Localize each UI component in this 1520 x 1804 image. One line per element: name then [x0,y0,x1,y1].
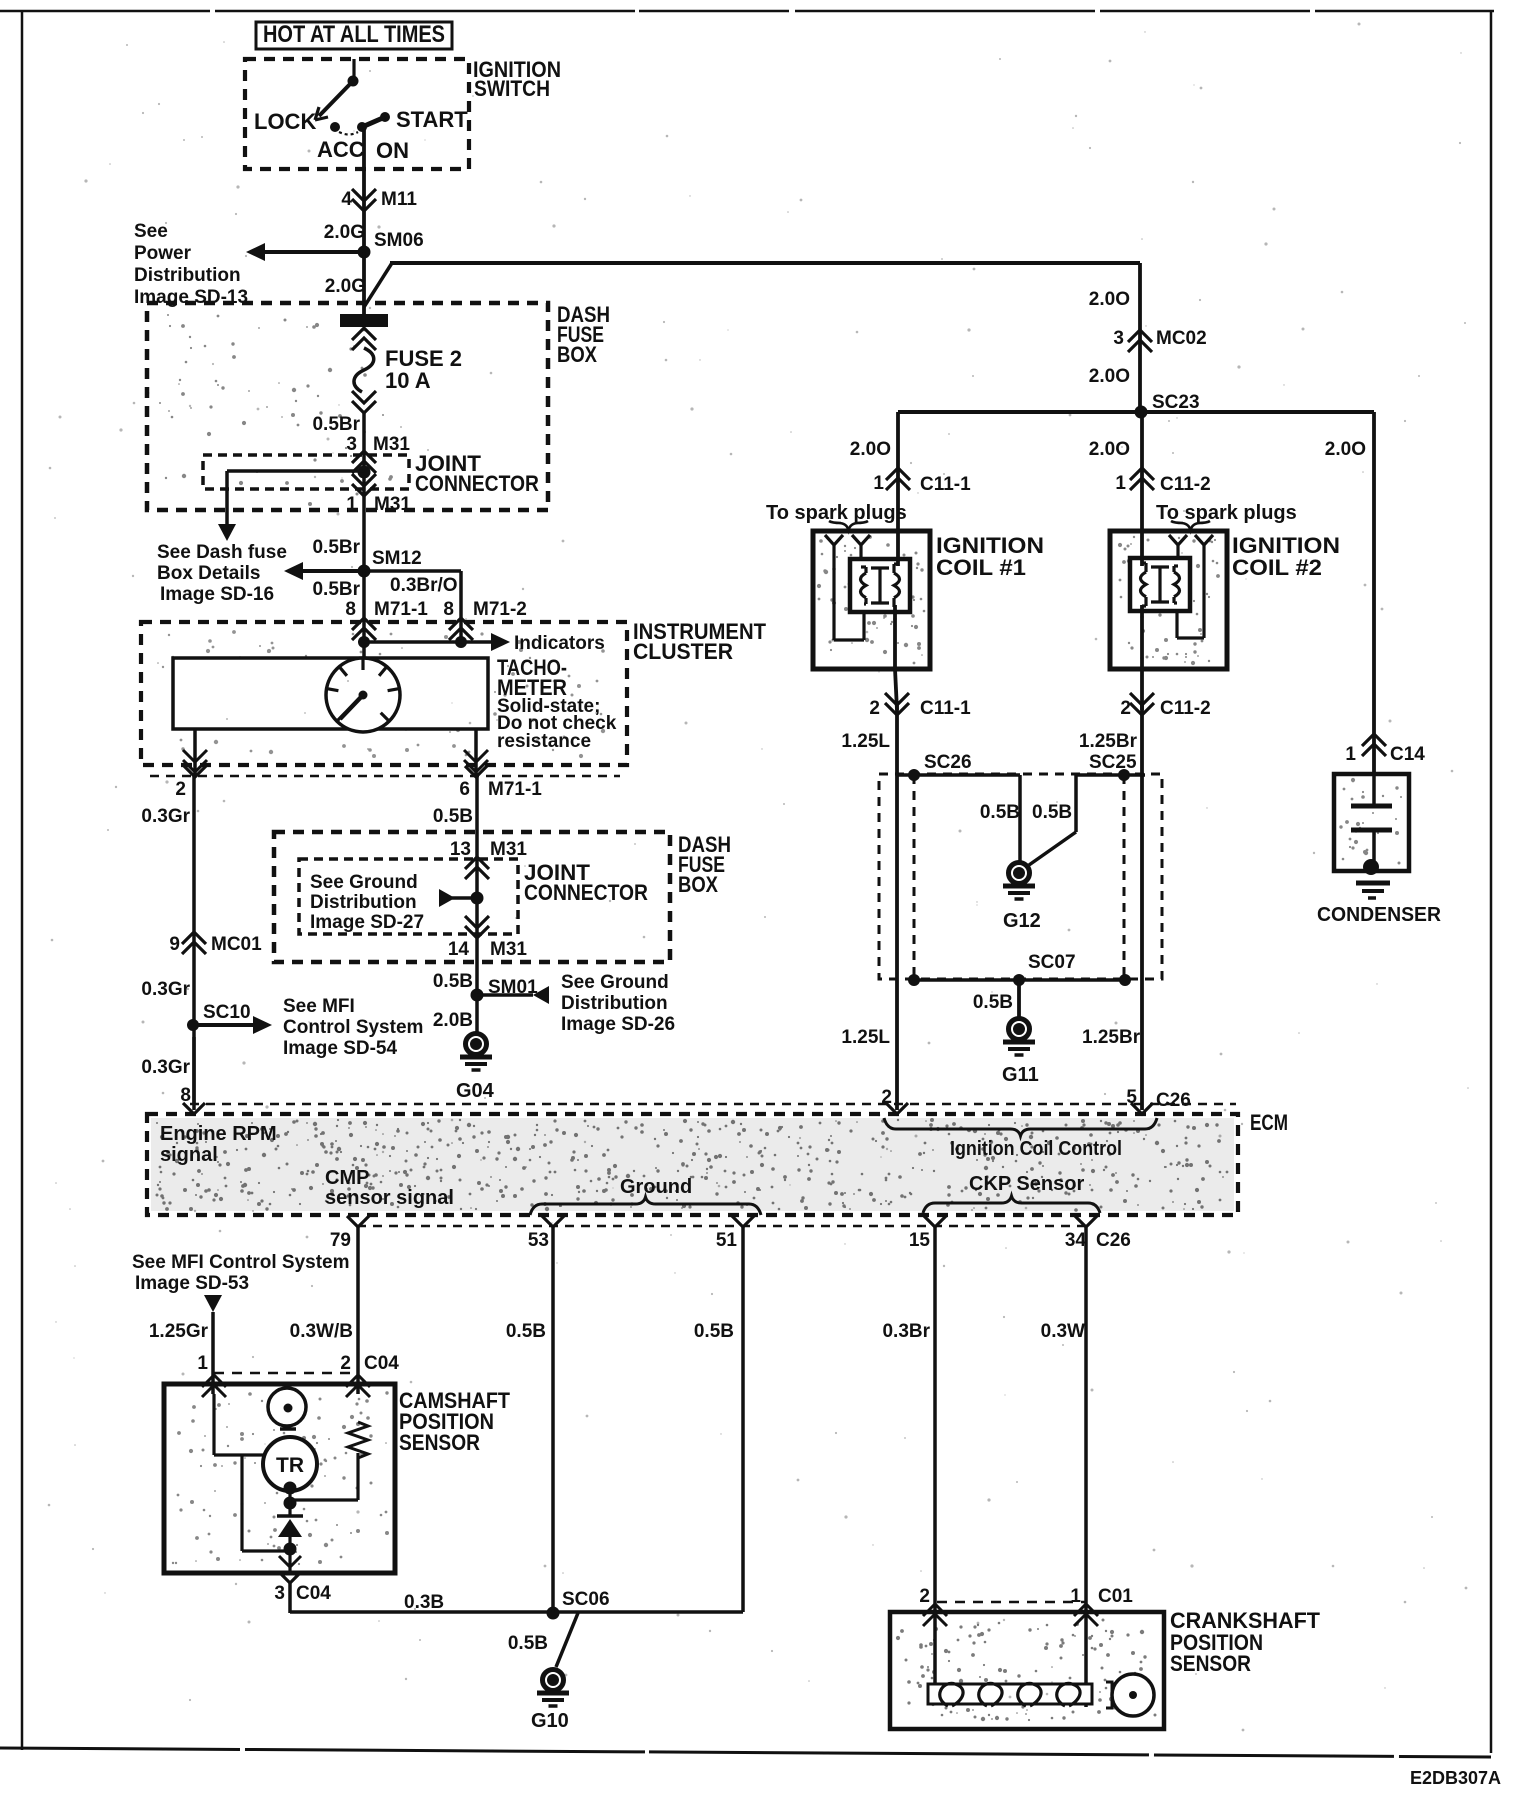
svg-text:SC07: SC07 [1028,952,1076,973]
svg-text:15: 15 [909,1230,931,1251]
svg-text:14: 14 [448,939,470,960]
svg-text:CONNECTOR: CONNECTOR [524,880,648,905]
svg-text:COIL #2: COIL #2 [1232,555,1322,580]
svg-text:G12: G12 [1003,910,1041,932]
svg-text:C11-2: C11-2 [1160,474,1211,495]
svg-text:2.0O: 2.0O [1089,366,1130,387]
svg-text:See: See [134,221,168,242]
svg-text:SWITCH: SWITCH [474,76,550,101]
svg-text:M71-1: M71-1 [488,779,542,800]
svg-text:9: 9 [169,934,180,955]
svg-text:M31: M31 [490,839,527,860]
svg-text:M71-2: M71-2 [473,599,527,620]
svg-text:1: 1 [197,1353,208,1374]
svg-text:ACC: ACC [317,137,365,162]
svg-text:1.25Br: 1.25Br [1082,1027,1141,1048]
svg-text:0.3Gr: 0.3Gr [141,806,190,827]
svg-text:To spark plugs: To spark plugs [1156,502,1297,524]
svg-text:0.5Br: 0.5Br [312,537,360,558]
svg-text:0.3W/B: 0.3W/B [290,1321,353,1342]
svg-text:MC01: MC01 [211,934,262,955]
svg-text:SENSOR: SENSOR [399,1430,480,1455]
svg-text:1: 1 [346,494,357,515]
svg-text:SENSOR: SENSOR [1170,1651,1251,1676]
svg-text:0.3Gr: 0.3Gr [141,979,190,1000]
svg-text:Indicators: Indicators [514,633,605,654]
svg-text:SM06: SM06 [374,230,424,251]
svg-text:0.5Br: 0.5Br [312,579,360,600]
svg-text:79: 79 [330,1230,351,1251]
svg-text:G11: G11 [1002,1064,1039,1086]
svg-text:3: 3 [346,434,357,455]
svg-text:See Ground: See Ground [561,972,669,993]
svg-text:START: START [396,107,468,132]
svg-text:ECM: ECM [1250,1110,1288,1135]
svg-text:E2DB307A: E2DB307A [1410,1768,1501,1788]
svg-text:0.5B: 0.5B [694,1321,734,1342]
svg-text:C01: C01 [1098,1586,1133,1607]
svg-text:Control System: Control System [283,1017,423,1038]
svg-text:1: 1 [1345,744,1356,765]
svg-text:2.0B: 2.0B [433,1010,473,1031]
svg-text:0.5B: 0.5B [506,1321,546,1342]
svg-text:M11: M11 [381,189,417,210]
svg-text:8: 8 [180,1085,191,1106]
svg-text:C14: C14 [1390,744,1425,765]
svg-text:Ground: Ground [620,1176,692,1198]
svg-text:C11-1: C11-1 [920,698,971,719]
svg-text:C11-1: C11-1 [920,474,971,495]
svg-text:1: 1 [873,473,884,494]
svg-text:resistance: resistance [497,731,591,752]
svg-text:8: 8 [345,599,356,620]
svg-text:CLUSTER: CLUSTER [633,639,733,664]
svg-text:SC23: SC23 [1152,392,1200,413]
svg-text:4: 4 [341,189,352,210]
svg-text:2.0O: 2.0O [1089,289,1130,310]
svg-text:M31: M31 [374,494,411,515]
svg-text:6: 6 [459,779,470,800]
svg-text:CONDENSER: CONDENSER [1317,904,1442,926]
svg-text:TR: TR [276,1454,304,1477]
svg-text:2.0G: 2.0G [325,276,366,297]
svg-text:0.3W: 0.3W [1041,1321,1085,1342]
svg-text:10 A: 10 A [385,368,431,393]
svg-text:See MFI: See MFI [283,996,355,1017]
svg-text:See Dash fuse: See Dash fuse [157,542,287,563]
svg-text:See Ground: See Ground [310,872,418,893]
svg-text:sensor signal: sensor signal [325,1187,454,1209]
svg-text:1.25Br: 1.25Br [1079,731,1138,752]
svg-text:HOT AT ALL TIMES: HOT AT ALL TIMES [263,21,445,48]
svg-text:SC10: SC10 [203,1002,251,1023]
svg-text:Image SD-26: Image SD-26 [561,1014,675,1035]
svg-text:Distribution: Distribution [310,892,417,913]
svg-text:34: 34 [1065,1230,1087,1251]
svg-text:Image SD-16: Image SD-16 [160,584,274,605]
svg-text:Box Details: Box Details [157,563,260,584]
svg-text:2: 2 [340,1353,351,1374]
svg-text:Image SD-54: Image SD-54 [283,1038,397,1059]
svg-text:0.5B: 0.5B [1032,802,1072,823]
svg-text:0.5B: 0.5B [433,971,473,992]
svg-text:SC06: SC06 [562,1589,610,1610]
svg-text:1: 1 [1070,1586,1081,1607]
svg-text:2.0G: 2.0G [324,222,365,243]
svg-text:Distribution: Distribution [134,265,241,286]
svg-text:Ignition Coil Control: Ignition Coil Control [950,1138,1122,1160]
svg-text:0.5B: 0.5B [433,806,473,827]
svg-text:C26: C26 [1156,1090,1191,1111]
svg-text:2: 2 [1120,698,1131,719]
svg-text:SM12: SM12 [372,548,422,569]
svg-text:0.5B: 0.5B [980,802,1020,823]
svg-text:BOX: BOX [678,872,718,897]
svg-text:Distribution: Distribution [561,993,668,1014]
svg-text:BOX: BOX [557,342,597,367]
svg-text:Image SD-27: Image SD-27 [310,912,424,933]
svg-text:C04: C04 [296,1583,331,1604]
svg-text:G04: G04 [456,1080,495,1102]
svg-text:51: 51 [716,1230,738,1251]
svg-text:1: 1 [1115,473,1126,494]
svg-text:2.0O: 2.0O [850,439,891,460]
svg-text:1.25Gr: 1.25Gr [149,1321,209,1342]
svg-text:3: 3 [1113,328,1124,349]
svg-text:Power: Power [134,243,192,264]
svg-text:G10: G10 [531,1710,569,1732]
svg-text:MC02: MC02 [1156,328,1207,349]
svg-text:M71-1: M71-1 [374,599,428,620]
svg-text:2.0O: 2.0O [1089,439,1130,460]
svg-text:2.0O: 2.0O [1325,439,1366,460]
svg-text:CONNECTOR: CONNECTOR [415,471,539,496]
svg-text:3: 3 [274,1583,285,1604]
svg-text:53: 53 [528,1230,549,1251]
svg-text:LOCK: LOCK [254,109,316,134]
svg-text:C04: C04 [364,1353,399,1374]
svg-text:See MFI Control System: See MFI Control System [132,1252,350,1273]
svg-text:2: 2 [869,698,880,719]
svg-text:0.5B: 0.5B [508,1633,548,1654]
svg-text:ON: ON [376,138,409,163]
svg-text:Image SD-53: Image SD-53 [135,1273,249,1294]
svg-text:1.25L: 1.25L [841,731,890,752]
svg-text:0.3Br/O: 0.3Br/O [390,575,458,596]
svg-text:0.5Br: 0.5Br [312,414,360,435]
svg-text:M31: M31 [490,939,527,960]
svg-text:signal: signal [160,1144,218,1166]
svg-text:Engine RPM: Engine RPM [160,1123,277,1145]
svg-text:2: 2 [919,1586,930,1607]
svg-text:SC26: SC26 [924,752,972,773]
svg-text:8: 8 [443,599,454,620]
svg-text:0.3B: 0.3B [404,1592,444,1613]
svg-text:C11-2: C11-2 [1160,698,1211,719]
svg-text:To spark plugs: To spark plugs [766,502,907,524]
svg-text:M31: M31 [373,434,410,455]
svg-text:1.25L: 1.25L [841,1027,890,1048]
svg-text:0.5B: 0.5B [973,992,1013,1013]
svg-text:2: 2 [175,779,186,800]
svg-text:CMP: CMP [325,1167,369,1189]
svg-text:13: 13 [450,839,471,860]
svg-text:SC25: SC25 [1089,752,1137,773]
svg-text:COIL #1: COIL #1 [936,555,1026,580]
svg-text:CKP Sensor: CKP Sensor [969,1173,1084,1195]
svg-text:0.3Gr: 0.3Gr [141,1057,190,1078]
svg-text:C26: C26 [1096,1230,1131,1251]
svg-text:0.3Br: 0.3Br [882,1321,930,1342]
